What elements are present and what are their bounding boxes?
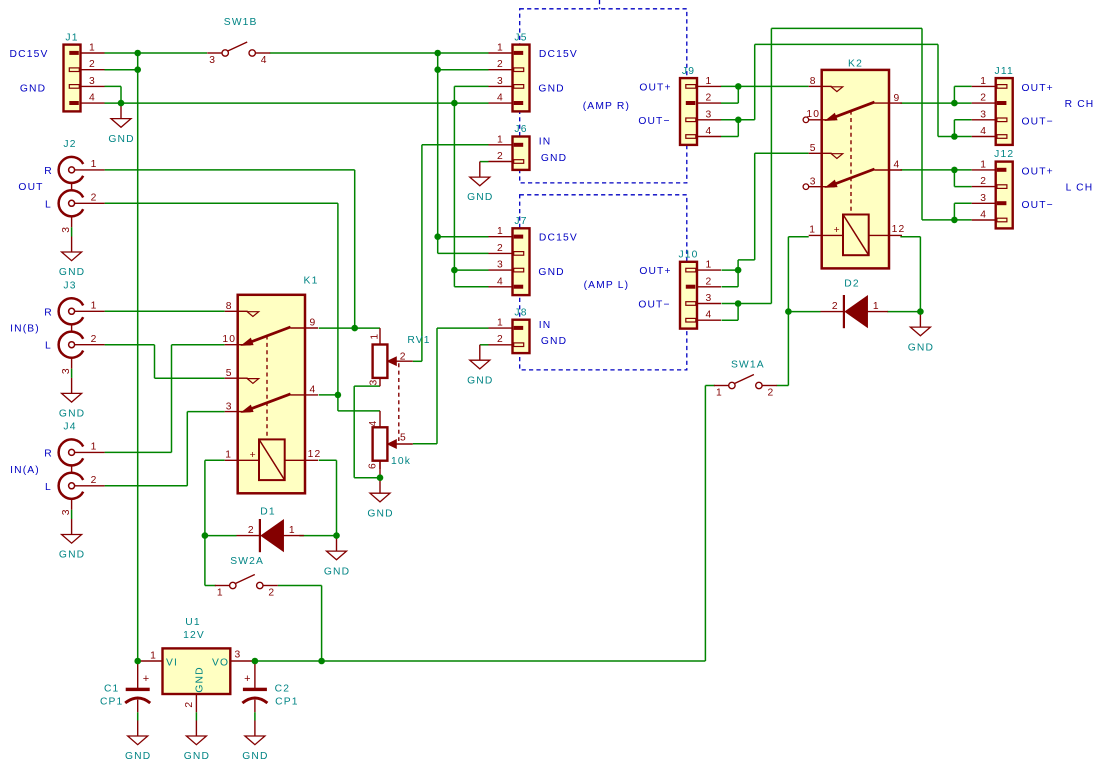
svg-text:1: 1 [497,226,504,237]
svg-text:(AMP R): (AMP R) [583,101,630,112]
svg-text:2: 2 [91,192,98,203]
svg-text:K2: K2 [848,59,863,70]
svg-text:4: 4 [706,310,713,321]
svg-text:OUT+: OUT+ [639,83,671,94]
svg-text:GND: GND [367,508,393,519]
svg-text:GND: GND [467,375,493,386]
svg-text:10k: 10k [391,456,411,467]
svg-text:CP1: CP1 [100,697,123,708]
svg-text:2: 2 [497,243,504,254]
svg-text:2: 2 [832,301,839,312]
svg-text:1: 1 [706,260,713,271]
svg-text:K1: K1 [304,276,319,287]
svg-text:12: 12 [308,449,322,460]
svg-text:IN: IN [539,137,552,148]
svg-text:+: + [143,673,151,685]
svg-text:GND: GND [195,666,206,692]
svg-text:3: 3 [497,76,504,87]
svg-text:3: 3 [61,367,72,374]
svg-text:RV1: RV1 [407,335,430,346]
svg-text:4: 4 [89,93,96,104]
svg-text:2: 2 [268,588,275,599]
svg-text:3: 3 [226,401,233,412]
svg-text:1: 1 [91,442,98,453]
svg-text:J5: J5 [514,32,527,43]
svg-text:3: 3 [89,76,96,87]
svg-text:GND: GND [184,751,210,762]
svg-text:3: 3 [497,260,504,271]
svg-text:D1: D1 [260,507,275,518]
svg-text:4: 4 [497,93,504,104]
svg-text:3: 3 [980,193,987,204]
svg-text:2: 2 [980,176,987,187]
svg-text:IN(B): IN(B) [10,323,40,334]
svg-text:3: 3 [61,226,72,233]
svg-text:GND: GND [467,192,493,203]
svg-text:2: 2 [497,334,504,345]
svg-text:1: 1 [980,76,987,87]
svg-text:C1: C1 [104,683,119,694]
svg-text:3: 3 [61,508,72,515]
svg-text:DC15V: DC15V [10,49,49,60]
svg-text:GND: GND [541,336,567,347]
svg-text:1: 1 [706,76,713,87]
svg-text:1: 1 [91,300,98,311]
svg-text:OUT−: OUT− [638,300,670,311]
svg-text:R CH: R CH [1065,99,1095,110]
svg-text:3: 3 [209,55,216,66]
svg-text:4: 4 [706,126,713,137]
svg-text:GND: GND [538,267,564,278]
svg-text:DC15V: DC15V [539,49,578,60]
svg-text:6: 6 [368,462,379,469]
svg-text:OUT−: OUT− [638,116,670,127]
svg-text:1: 1 [873,301,880,312]
svg-text:DC15V: DC15V [539,233,578,244]
svg-text:OUT+: OUT+ [1022,167,1054,178]
svg-text:L: L [45,341,52,352]
svg-text:J12: J12 [994,149,1014,160]
svg-text:+: + [244,673,252,685]
svg-text:2: 2 [184,701,195,708]
svg-text:C2: C2 [275,683,290,694]
svg-text:OUT+: OUT+ [639,266,671,277]
svg-text:8: 8 [810,76,817,87]
svg-text:J3: J3 [63,281,76,292]
svg-text:2: 2 [248,525,255,536]
svg-text:+: + [834,225,841,236]
svg-text:4: 4 [894,160,901,171]
svg-text:GND: GND [541,153,567,164]
svg-text:R: R [44,166,53,177]
svg-text:1: 1 [289,525,296,536]
svg-text:1: 1 [370,333,381,340]
svg-text:12V: 12V [183,630,205,641]
svg-text:1: 1 [91,159,98,170]
svg-text:L: L [45,482,52,493]
svg-text:1: 1 [150,651,157,662]
svg-text:4: 4 [368,420,379,427]
svg-text:3: 3 [706,109,713,120]
svg-text:J11: J11 [995,66,1014,77]
svg-text:2: 2 [706,276,713,287]
svg-text:3: 3 [706,293,713,304]
svg-text:8: 8 [226,301,233,312]
svg-text:3: 3 [369,379,380,386]
svg-text:SW1B: SW1B [224,17,258,28]
svg-text:L CH: L CH [1066,183,1094,194]
svg-text:3: 3 [980,109,987,120]
svg-text:4: 4 [310,385,317,396]
svg-text:U1: U1 [185,617,200,628]
svg-text:4: 4 [980,210,987,221]
svg-text:10: 10 [222,334,236,345]
svg-text:1: 1 [497,43,504,54]
svg-text:2: 2 [91,475,98,486]
svg-text:1: 1 [497,134,504,145]
svg-text:SW2A: SW2A [230,556,264,567]
svg-text:1: 1 [809,225,816,236]
svg-text:R: R [44,448,53,459]
svg-text:GND: GND [59,267,85,278]
svg-text:GND: GND [908,342,934,353]
svg-text:2: 2 [91,334,98,345]
svg-text:IN: IN [539,320,552,331]
svg-text:IN(A): IN(A) [10,465,40,476]
svg-text:OUT−: OUT− [1022,117,1054,128]
svg-text:J2: J2 [63,139,76,150]
svg-text:3: 3 [810,176,817,187]
svg-text:GND: GND [324,566,350,577]
svg-text:J9: J9 [682,66,695,77]
svg-text:R: R [44,307,53,318]
svg-text:SW1A: SW1A [731,360,765,371]
svg-text:VI: VI [166,657,178,668]
svg-text:5: 5 [226,368,233,379]
svg-text:J8: J8 [514,307,527,318]
svg-text:4: 4 [497,276,504,287]
svg-text:2: 2 [89,59,96,70]
svg-text:1: 1 [980,159,987,170]
svg-text:1: 1 [497,318,504,329]
svg-text:4: 4 [261,55,268,66]
svg-text:GND: GND [59,409,85,420]
svg-text:GND: GND [59,550,85,561]
svg-text:1: 1 [716,388,723,399]
svg-text:2: 2 [706,93,713,104]
svg-text:GND: GND [20,83,46,94]
svg-text:J1: J1 [65,32,78,43]
svg-text:9: 9 [894,93,901,104]
svg-text:2: 2 [400,351,407,362]
svg-text:GND: GND [108,134,134,145]
svg-text:GND: GND [242,751,268,762]
svg-text:L: L [45,199,52,210]
svg-text:J4: J4 [63,422,76,433]
svg-text:J7: J7 [514,216,527,227]
svg-text:OUT: OUT [18,182,43,193]
svg-text:OUT+: OUT+ [1022,83,1054,94]
svg-text:2: 2 [497,151,504,162]
svg-text:1: 1 [225,450,232,461]
svg-text:2: 2 [980,93,987,104]
svg-text:GND: GND [538,84,564,95]
svg-text:D2: D2 [844,279,859,290]
svg-text:(AMP L): (AMP L) [584,280,630,291]
svg-text:OUT−: OUT− [1022,200,1054,211]
svg-text:1: 1 [217,588,224,599]
svg-text:1: 1 [89,43,96,54]
svg-text:2: 2 [497,59,504,70]
svg-text:J6: J6 [514,124,527,135]
svg-text:5: 5 [810,143,817,154]
svg-text:9: 9 [310,318,317,329]
svg-text:+: + [250,450,257,461]
svg-text:5: 5 [400,433,407,444]
svg-text:3: 3 [235,649,242,660]
svg-text:J10: J10 [678,249,698,260]
svg-text:12: 12 [892,224,906,235]
svg-text:4: 4 [980,126,987,137]
svg-text:GND: GND [125,751,151,762]
svg-text:CP1: CP1 [275,697,298,708]
svg-text:2: 2 [767,388,774,399]
svg-text:VO: VO [212,657,229,668]
